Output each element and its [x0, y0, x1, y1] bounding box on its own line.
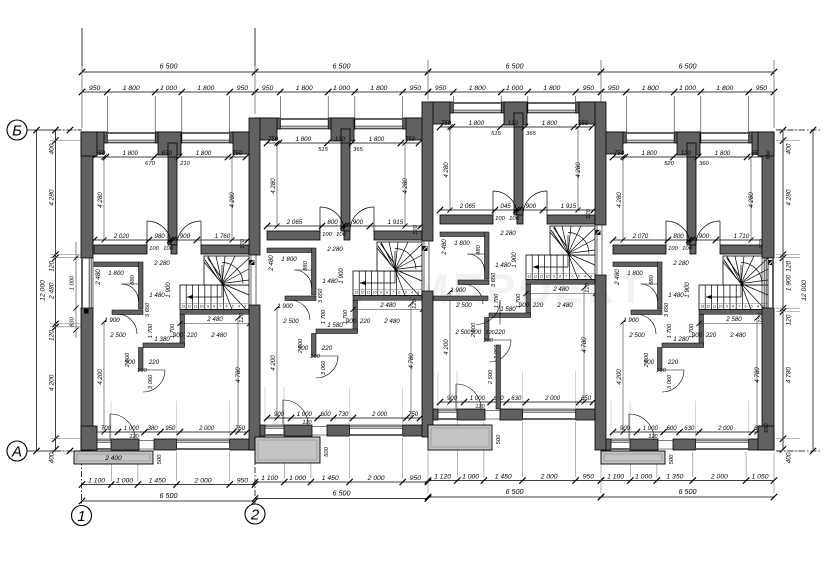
svg-text:4 780: 4 780: [408, 353, 415, 369]
svg-text:120: 120: [239, 312, 245, 322]
party wall 1-2: [249, 118, 260, 255]
svg-text:А: А: [11, 444, 22, 461]
svg-text:1 900: 1 900: [511, 252, 518, 268]
unit 1 walls: [82, 132, 107, 143]
svg-text:2 500: 2 500: [628, 332, 645, 339]
svg-text:6 500: 6 500: [160, 491, 178, 500]
svg-text:3: 3: [417, 291, 419, 295]
svg-text:1 050: 1 050: [751, 474, 768, 481]
svg-text:6: 6: [399, 291, 401, 295]
svg-text:380: 380: [148, 426, 159, 432]
unit 3 hall door arc: [463, 284, 483, 304]
axis А circle: [7, 441, 27, 461]
svg-text:2 070: 2 070: [632, 233, 649, 240]
svg-text:670: 670: [162, 150, 173, 157]
svg-text:4 280: 4 280: [229, 192, 236, 208]
svg-text:6 500: 6 500: [333, 489, 351, 498]
unit 3 entrance door arc: [456, 384, 481, 409]
svg-text:750: 750: [235, 426, 246, 432]
svg-text:6 500: 6 500: [506, 62, 524, 71]
unit 1 bathroom walls: [94, 262, 139, 267]
svg-text:880: 880: [303, 260, 309, 270]
svg-text:8: 8: [386, 291, 388, 295]
svg-text:7: 7: [565, 275, 567, 279]
svg-text:2 480: 2 480: [379, 302, 396, 309]
svg-text:365: 365: [526, 131, 536, 137]
svg-text:1 480: 1 480: [495, 262, 511, 269]
svg-text:11: 11: [367, 291, 371, 295]
svg-text:2 020: 2 020: [113, 233, 130, 240]
unit 3 bathroom walls: [440, 232, 485, 237]
unit 2 entrance door arc: [283, 400, 308, 425]
unit 3 walls: [428, 102, 453, 113]
svg-text:2 480: 2 480: [383, 318, 400, 325]
svg-text:1 800: 1 800: [627, 270, 643, 277]
svg-text:2 500: 2 500: [488, 369, 494, 385]
svg-text:100: 100: [310, 354, 320, 360]
unit 2 stair: [353, 271, 422, 296]
svg-text:1 480: 1 480: [149, 292, 165, 299]
svg-text:6 500: 6 500: [160, 62, 178, 71]
svg-text:1 915: 1 915: [561, 203, 577, 210]
svg-text:5: 5: [751, 305, 753, 309]
svg-text:4 280: 4 280: [97, 192, 104, 208]
svg-text:3 650: 3 650: [491, 272, 497, 287]
svg-text:500: 500: [324, 446, 330, 456]
top axis/extension lines: [81, 28, 83, 66]
svg-text:900: 900: [699, 233, 710, 240]
svg-text:1 000: 1 000: [70, 275, 76, 290]
unit 2 interior wall W1: [267, 231, 320, 240]
svg-text:045: 045: [500, 203, 511, 210]
unit 2 porch: [255, 437, 320, 463]
svg-text:2 500: 2 500: [109, 332, 126, 339]
svg-text:6 500: 6 500: [506, 487, 524, 496]
svg-text:2 480: 2 480: [441, 239, 448, 256]
svg-text:2 480: 2 480: [614, 269, 621, 286]
svg-text:4 280: 4 280: [49, 189, 56, 206]
svg-text:2 280: 2 280: [499, 230, 516, 237]
unit 2 bathroom door arc: [295, 270, 312, 287]
svg-text:1 800: 1 800: [197, 85, 214, 92]
unit 3 bathroom door arc: [468, 254, 485, 271]
svg-text:980: 980: [154, 233, 165, 240]
svg-text:10: 10: [200, 305, 204, 309]
vent duct symbols on walls: [250, 260, 255, 265]
svg-text:5: 5: [578, 275, 580, 279]
unit 4 interior wall W1: [613, 245, 666, 254]
svg-text:1 450: 1 450: [322, 475, 339, 482]
unit 1 interior wall W1: [94, 245, 147, 254]
svg-text:4 280: 4 280: [402, 178, 409, 194]
svg-text:900: 900: [180, 233, 191, 240]
svg-text:100: 100: [336, 232, 346, 238]
unit 3 interior dimension texts: [440, 126, 592, 128]
svg-text:4 200: 4 200: [270, 355, 277, 371]
svg-text:210: 210: [179, 161, 190, 167]
svg-text:4: 4: [584, 275, 586, 279]
svg-text:4 780: 4 780: [581, 337, 588, 353]
unit 3 lower partition: [496, 345, 501, 409]
left wall side dims: [75, 242, 77, 338]
svg-text:1 700: 1 700: [667, 323, 673, 338]
svg-text:13: 13: [354, 291, 358, 295]
svg-text:120: 120: [786, 260, 793, 271]
svg-text:1 100: 1 100: [88, 478, 105, 485]
svg-text:1 900: 1 900: [165, 282, 172, 298]
left wall window: [81, 258, 83, 308]
svg-text:2 280: 2 280: [153, 260, 170, 267]
svg-text:515: 515: [491, 131, 501, 137]
svg-text:220: 220: [359, 318, 371, 325]
unit 4 partition between top rooms: [687, 143, 696, 245]
unit 4 understair door arc: [662, 370, 684, 392]
unit 3 top windows: [453, 102, 501, 104]
svg-text:950: 950: [262, 85, 274, 92]
svg-text:4: 4: [411, 291, 413, 295]
svg-text:12: 12: [533, 275, 537, 279]
svg-text:1 800: 1 800: [281, 256, 297, 263]
svg-text:515: 515: [318, 147, 328, 153]
svg-text:1 710: 1 710: [734, 233, 750, 240]
svg-text:4 200: 4 200: [616, 369, 623, 385]
unit 2 interior dimension texts: [267, 142, 419, 144]
unit 2 W1 door arcs: [320, 207, 344, 231]
svg-text:2 480: 2 480: [556, 302, 573, 309]
svg-text:12: 12: [706, 305, 710, 309]
svg-text:120: 120: [240, 238, 246, 248]
svg-text:100: 100: [509, 216, 519, 222]
svg-text:900: 900: [447, 396, 458, 402]
unit 1 understair door arc: [143, 370, 165, 392]
svg-text:2 000: 2 000: [194, 478, 212, 485]
svg-text:900: 900: [692, 332, 703, 339]
unit 4 W1 door arcs: [666, 221, 690, 245]
unit 4 entrance door arc: [629, 414, 654, 439]
svg-text:4 280: 4 280: [786, 189, 793, 206]
svg-text:750: 750: [441, 120, 452, 127]
svg-text:2 500: 2 500: [644, 352, 650, 368]
svg-text:2 480: 2 480: [49, 282, 56, 300]
svg-text:120: 120: [475, 404, 485, 410]
svg-text:3: 3: [244, 305, 246, 309]
unit 3 bottom windows: [438, 418, 457, 420]
bottom dimension rows: [82, 484, 255, 486]
unit 2 bottom windows: [265, 434, 284, 436]
svg-text:100: 100: [668, 246, 678, 252]
svg-text:1 000: 1 000: [333, 85, 350, 92]
svg-text:400: 400: [786, 143, 793, 154]
unit 1 stair lower wall: [180, 310, 249, 315]
svg-text:3 060: 3 060: [321, 360, 327, 375]
svg-text:5: 5: [232, 305, 234, 309]
svg-text:2 500: 2 500: [298, 338, 304, 354]
svg-text:11: 11: [713, 305, 717, 309]
svg-text:1 900: 1 900: [623, 317, 639, 324]
svg-text:120: 120: [681, 150, 692, 157]
svg-text:100: 100: [163, 246, 173, 252]
svg-text:9: 9: [207, 305, 209, 309]
svg-text:2 000: 2 000: [198, 426, 215, 432]
svg-text:2 400: 2 400: [104, 455, 122, 462]
svg-text:13: 13: [527, 275, 531, 279]
svg-text:6: 6: [226, 305, 228, 309]
svg-text:1 800: 1 800: [469, 85, 486, 92]
svg-text:1 480: 1 480: [322, 278, 338, 285]
svg-text:1 000: 1 000: [462, 474, 479, 481]
svg-text:2 500: 2 500: [455, 302, 472, 309]
svg-text:1 000: 1 000: [470, 396, 486, 402]
unit 4 bathroom door arc: [641, 284, 658, 301]
svg-text:220: 220: [148, 359, 160, 366]
svg-text:750: 750: [614, 150, 625, 157]
svg-text:800: 800: [673, 233, 684, 240]
svg-text:2 000: 2 000: [717, 426, 734, 432]
svg-text:880: 880: [649, 274, 655, 284]
svg-text:120: 120: [586, 208, 592, 218]
svg-text:11: 11: [540, 275, 544, 279]
svg-text:400: 400: [49, 143, 56, 154]
svg-text:1 900: 1 900: [786, 274, 793, 291]
svg-text:1 380: 1 380: [154, 336, 170, 343]
left outer wall: [81, 132, 93, 258]
unit 1 entrance door arc: [110, 414, 135, 439]
svg-text:900: 900: [346, 318, 357, 325]
unit 1 bottom wall: [82, 439, 92, 450]
svg-text:120: 120: [302, 420, 312, 426]
svg-text:900: 900: [173, 332, 184, 339]
svg-text:1 800: 1 800: [296, 85, 313, 92]
svg-text:1 000: 1 000: [643, 426, 659, 432]
unit 3 bottom wall: [428, 409, 438, 420]
svg-text:1 900: 1 900: [450, 287, 466, 294]
svg-text:1 000: 1 000: [297, 412, 313, 418]
svg-text:950: 950: [410, 85, 422, 92]
svg-text:9: 9: [380, 291, 382, 295]
svg-text:2 500: 2 500: [125, 352, 131, 368]
svg-text:4 200: 4 200: [49, 374, 56, 391]
svg-text:1 000: 1 000: [160, 85, 177, 92]
svg-text:1: 1: [77, 508, 85, 525]
svg-text:Б: Б: [12, 123, 22, 140]
svg-text:730: 730: [338, 412, 349, 418]
svg-text:12: 12: [360, 291, 364, 295]
svg-text:1 000: 1 000: [506, 85, 523, 92]
svg-text:100: 100: [682, 246, 692, 252]
svg-text:4 280: 4 280: [443, 162, 450, 178]
unit 3 W1 door arcs: [493, 191, 517, 215]
svg-text:120: 120: [129, 434, 139, 440]
svg-text:1 700: 1 700: [494, 293, 500, 308]
unit 4 stair: [699, 285, 768, 310]
left dimension column detail: [55, 130, 57, 449]
svg-text:3 060: 3 060: [667, 374, 673, 389]
svg-text:8: 8: [213, 305, 215, 309]
svg-text:1 280: 1 280: [673, 336, 689, 343]
svg-text:1 450: 1 450: [149, 478, 166, 485]
svg-text:1 000: 1 000: [289, 475, 306, 482]
svg-text:2 065: 2 065: [286, 219, 303, 226]
svg-text:1 580: 1 580: [327, 322, 343, 329]
svg-text:12: 12: [187, 305, 191, 309]
svg-text:2 500: 2 500: [454, 330, 471, 336]
svg-text:950: 950: [608, 85, 620, 92]
party wall 2-3: [422, 102, 433, 241]
svg-text:10: 10: [373, 291, 377, 295]
svg-text:9: 9: [726, 305, 728, 309]
svg-text:9: 9: [553, 275, 555, 279]
svg-text:1 120: 1 120: [434, 474, 451, 481]
unit 4 bottom windows: [611, 448, 630, 450]
svg-text:1 800: 1 800: [108, 270, 124, 277]
unit 1 W1 door arcs: [147, 221, 171, 245]
unit 4 stair lower wall: [699, 310, 768, 315]
svg-text:950: 950: [583, 474, 595, 481]
svg-text:220: 220: [705, 332, 717, 339]
svg-text:6: 6: [745, 305, 747, 309]
unit 3 hall door arc: [476, 301, 500, 325]
svg-text:2 480: 2 480: [268, 255, 275, 272]
svg-text:1 800: 1 800: [369, 136, 385, 143]
unit 2 understair door arc: [316, 356, 338, 378]
svg-text:4 280: 4 280: [575, 162, 582, 178]
svg-text:4 280: 4 280: [270, 178, 277, 194]
svg-text:13: 13: [700, 305, 704, 309]
svg-text:900: 900: [620, 426, 631, 432]
svg-text:1 915: 1 915: [388, 219, 404, 226]
svg-text:100: 100: [322, 232, 332, 238]
unit 4 bathroom walls: [613, 262, 658, 267]
svg-text:700: 700: [101, 426, 112, 432]
svg-text:4 200: 4 200: [97, 369, 104, 385]
svg-text:220: 220: [186, 332, 198, 339]
unit 4 hall door arc: [636, 314, 656, 334]
svg-text:4 780: 4 780: [754, 367, 761, 383]
svg-text:630: 630: [511, 396, 522, 402]
left wall vent square: [84, 309, 89, 314]
unit 1 porch: [74, 451, 153, 464]
svg-text:1 900: 1 900: [277, 303, 293, 310]
unit 4 walls: [601, 132, 626, 143]
svg-text:2 480: 2 480: [729, 332, 746, 339]
unit 1 stair: [180, 285, 249, 310]
svg-text:2 000: 2 000: [544, 396, 561, 402]
svg-text:365: 365: [353, 147, 363, 153]
svg-text:400: 400: [786, 452, 793, 463]
unit 2 top windows: [280, 118, 328, 120]
svg-text:3: 3: [590, 275, 592, 279]
svg-text:100: 100: [149, 246, 159, 252]
svg-text:950: 950: [165, 426, 176, 432]
unit 1 bathroom door arc: [122, 284, 139, 301]
svg-text:120: 120: [49, 260, 56, 271]
unit 4 bottom wall: [601, 439, 611, 450]
svg-text:1 000: 1 000: [124, 426, 140, 432]
unit 3 porch: [428, 425, 492, 450]
unit 3 extra hall wall: [433, 296, 488, 301]
svg-text:11: 11: [194, 305, 198, 309]
svg-text:13: 13: [181, 305, 185, 309]
left dimension column 12 000: [36, 130, 38, 451]
svg-text:120: 120: [648, 434, 658, 440]
svg-text:630: 630: [684, 426, 695, 432]
svg-text:1 800: 1 800: [454, 240, 470, 247]
svg-text:5: 5: [405, 291, 407, 295]
unit 3 interior wall W1: [440, 215, 493, 224]
svg-text:1 800: 1 800: [295, 136, 311, 143]
svg-text:120: 120: [485, 330, 495, 336]
svg-text:3 650: 3 650: [318, 288, 324, 303]
svg-text:1 800: 1 800: [468, 120, 484, 127]
svg-text:950: 950: [583, 85, 595, 92]
unit 1 bottom windows: [92, 448, 111, 450]
svg-text:120: 120: [49, 330, 56, 341]
svg-text:120: 120: [508, 120, 519, 127]
svg-text:800: 800: [327, 219, 338, 226]
unit 1 hall door arc: [117, 314, 137, 334]
svg-text:6 500: 6 500: [333, 62, 351, 71]
right outer wall: [762, 132, 774, 258]
svg-text:2 280: 2 280: [672, 260, 689, 267]
svg-text:900: 900: [274, 412, 285, 418]
svg-text:880: 880: [476, 244, 482, 254]
svg-text:2 000: 2 000: [367, 475, 385, 482]
right wall window: [772, 258, 774, 308]
svg-text:2 065: 2 065: [459, 203, 476, 210]
svg-text:120: 120: [413, 224, 419, 234]
svg-text:2 000: 2 000: [371, 412, 388, 418]
svg-text:4 280: 4 280: [616, 192, 623, 208]
svg-text:1 800: 1 800: [370, 85, 387, 92]
svg-text:950: 950: [756, 85, 768, 92]
svg-text:670: 670: [145, 161, 155, 167]
svg-text:950: 950: [435, 85, 447, 92]
axis Б circle: [7, 120, 27, 140]
svg-text:3 650: 3 650: [145, 302, 151, 317]
svg-text:1 800: 1 800: [715, 150, 731, 157]
svg-text:8: 8: [559, 275, 561, 279]
svg-text:1 350: 1 350: [666, 474, 683, 481]
svg-text:1 800: 1 800: [716, 85, 733, 92]
svg-text:120: 120: [335, 136, 346, 143]
svg-text:7: 7: [219, 305, 221, 309]
svg-text:2 500: 2 500: [282, 318, 299, 325]
svg-text:2 480: 2 480: [210, 332, 227, 339]
svg-text:950: 950: [237, 478, 249, 485]
svg-text:650: 650: [581, 396, 592, 402]
top dimension rows: [82, 71, 255, 73]
unit 3 stair: [526, 255, 595, 280]
svg-text:500: 500: [496, 434, 502, 444]
svg-text:900: 900: [526, 203, 537, 210]
svg-text:8: 8: [732, 305, 734, 309]
svg-text:7: 7: [738, 305, 740, 309]
svg-text:3 060: 3 060: [148, 374, 154, 389]
svg-text:220: 220: [321, 345, 333, 352]
unit 1 interior dimension texts: [94, 156, 246, 158]
svg-text:2: 2: [250, 507, 260, 524]
svg-text:2 480: 2 480: [552, 286, 569, 293]
svg-text:360: 360: [699, 161, 709, 167]
svg-text:1 700: 1 700: [148, 323, 154, 338]
svg-text:7: 7: [392, 291, 394, 295]
svg-text:1 800: 1 800: [196, 150, 212, 157]
unit 4 porch: [601, 451, 665, 464]
svg-text:2 580: 2 580: [725, 316, 742, 323]
unit 2 bottom wall: [255, 425, 265, 436]
svg-text:1 480: 1 480: [668, 292, 684, 299]
svg-text:4: 4: [238, 305, 240, 309]
